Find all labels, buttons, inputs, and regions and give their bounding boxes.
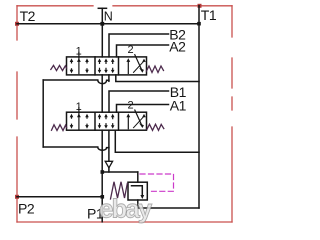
wire drain2 left with hop <box>43 147 109 150</box>
svg-text:ebay: ebay <box>99 194 153 224</box>
svg-text:1: 1 <box>76 101 82 113</box>
svg-text:N: N <box>104 10 113 24</box>
red border left <box>16 6 18 222</box>
valve V1 left box arrows <box>71 61 73 71</box>
wire A1 <box>117 105 169 113</box>
valve V2 right box arrows <box>127 117 129 129</box>
port dot P2 <box>15 195 19 199</box>
wire left rect vertical <box>42 80 44 147</box>
junction P1 <box>101 195 105 199</box>
valve V2 body <box>67 112 147 130</box>
wire B1 <box>109 91 169 112</box>
valve V2 left box arrows <box>71 116 73 126</box>
svg-text:A2: A2 <box>169 38 186 54</box>
wire drain1 stub <box>108 75 110 81</box>
valve V1 right box arrows <box>127 61 129 73</box>
wire drain2 right <box>115 130 199 152</box>
svg-text:P2: P2 <box>18 201 35 217</box>
junction N <box>100 22 104 26</box>
junction P <box>101 170 105 174</box>
wire carryover P valve1-valve2 <box>101 75 103 112</box>
valve V2 <box>52 100 164 131</box>
wire feed A below valve2 <box>101 130 103 172</box>
wire P junction horizontal <box>102 171 138 173</box>
wire feed B below valve2 <box>108 130 110 172</box>
svg-text:A1: A1 <box>170 98 187 114</box>
port dot T1 <box>198 4 202 8</box>
valve V2 spring right <box>147 124 164 130</box>
wire T1 vertical <box>198 6 200 208</box>
wire A2 <box>117 45 169 57</box>
relief valve box <box>128 182 147 200</box>
wire P1 vertical <box>101 172 103 222</box>
svg-text:T1: T1 <box>201 7 217 23</box>
svg-text:1: 1 <box>76 46 82 58</box>
pilot line magenta dashed <box>140 174 174 191</box>
valve V1 mid box marks <box>100 61 113 71</box>
red border bottom <box>17 221 232 223</box>
red border top <box>17 5 232 7</box>
wire T top <box>17 23 199 25</box>
flow arrow down <box>105 161 112 168</box>
red border right <box>231 6 233 222</box>
svg-text:2: 2 <box>128 100 134 112</box>
valve V1 spring right <box>147 66 164 73</box>
junction T1 <box>197 22 201 26</box>
svg-text:2: 2 <box>128 44 134 56</box>
wire B2 <box>109 34 169 57</box>
wire drain1 right <box>116 75 199 82</box>
valve V1 body <box>67 57 147 75</box>
wire P2 horizontal <box>17 196 102 198</box>
relief valve arrow <box>132 186 143 196</box>
valve V1 <box>51 44 164 75</box>
valve V2 spring left <box>52 125 67 131</box>
wire relief inlet <box>137 172 139 182</box>
svg-text:T2: T2 <box>20 8 36 24</box>
relief valve spring <box>111 182 128 199</box>
wire relief outlet <box>138 200 199 208</box>
valve V2 mid box marks <box>100 116 113 126</box>
port dot T2 <box>15 22 19 26</box>
wire drain1 left with hop <box>43 80 109 84</box>
valve V1 spring left <box>51 65 67 70</box>
port N cap <box>98 7 106 9</box>
wire N vertical <box>101 8 103 57</box>
